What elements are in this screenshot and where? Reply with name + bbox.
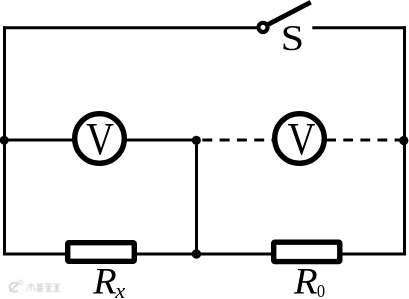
label V of right voltmeter: [288, 124, 315, 155]
node: junction dot on left border: [0, 136, 9, 145]
wire: top-right horizontal segment from switch to right border: [312, 26, 406, 29]
node: junction dot on right border: [399, 136, 408, 145]
label R0 : subscript 0: [318, 285, 325, 297]
label R0 : italic R: [294, 269, 317, 294]
wire: voltmeter V1 to middle junction: [124, 139, 198, 142]
label S: [284, 26, 302, 50]
wire: bottom horizontal: [3, 253, 406, 256]
label Rx : subscript x: [115, 288, 125, 298]
switch S blade (open): [267, 2, 311, 25]
node: bottom junction dot: [192, 249, 201, 258]
watermark text glyphs: [27, 283, 60, 291]
watermark logo mark: [10, 280, 61, 291]
wire: left border vertical: [3, 26, 6, 255]
wire: top-left horizontal segment to switch pivot: [3, 26, 258, 29]
voltmeter U1 (left V): [75, 114, 125, 164]
label V of left voltmeter: [87, 124, 114, 155]
wire: middle vertical from junction down to bottom wire: [195, 140, 198, 254]
label Rx : italic R: [93, 269, 116, 294]
wire: dashed from voltmeter V2 to right border: [326, 139, 401, 142]
wire: middle branch, left border to voltmeter V1: [3, 139, 76, 142]
resistor R0 body: [274, 242, 340, 261]
resistor Rx body: [68, 243, 135, 262]
node: middle junction dot: [192, 136, 201, 145]
wire: right border vertical: [403, 26, 406, 255]
switch S pivot terminal: [258, 23, 267, 32]
voltmeter U2 (right V, dashed-in): [275, 114, 325, 164]
wire: dashed from middle junction to voltmeter V2: [202, 139, 276, 142]
